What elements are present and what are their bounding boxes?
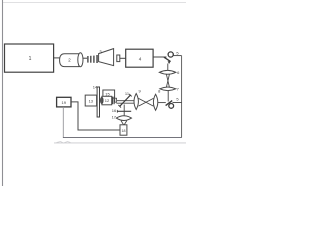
wire galvo5 to right bus <box>173 55 181 57</box>
galvo mirror 5 <box>164 52 173 64</box>
beam expander horn 3 <box>99 49 114 66</box>
wire 19 bottom bus <box>62 107 64 137</box>
wire cap to box4 <box>120 57 126 59</box>
wire box4 to galvo5 <box>153 56 166 58</box>
svg-text:4: 4 <box>139 57 142 62</box>
right bus wire <box>181 56 183 138</box>
svg-text:1: 1 <box>29 56 32 62</box>
beam crossing X vertical <box>166 74 169 87</box>
modulator box 4 <box>126 49 153 67</box>
beamsplitter 11 <box>118 94 131 108</box>
page top rule <box>3 2 186 4</box>
laser box 1 <box>5 44 54 72</box>
page bottom rule <box>54 142 186 144</box>
wire 19 to detector 18 <box>71 102 120 130</box>
lens 17 <box>116 116 131 121</box>
wire mirror to right bus <box>173 102 182 104</box>
beam mirror to lens8 <box>158 102 166 104</box>
lens 8 <box>153 94 157 110</box>
faint caption marks <box>57 142 71 144</box>
scan mirror lower <box>166 101 174 109</box>
plate 14 <box>97 87 99 117</box>
lens 6 <box>159 70 176 74</box>
filter 16 <box>117 110 131 112</box>
svg-text:18: 18 <box>122 129 126 133</box>
vertical beam below galvo5 <box>167 64 169 71</box>
svg-text:14: 14 <box>93 85 98 90</box>
beam below BS <box>123 105 125 116</box>
wire box1 to cylinder2 <box>54 57 60 59</box>
svg-text:17: 17 <box>112 114 117 119</box>
svg-text:12: 12 <box>105 98 110 103</box>
svg-text:13: 13 <box>89 99 94 104</box>
camera tube 12 <box>101 96 117 105</box>
isolator cylinder 2 <box>60 53 83 67</box>
svg-text:19: 19 <box>61 100 66 105</box>
page left rule <box>2 0 4 186</box>
lens 7 <box>160 87 176 91</box>
wire cylinder2 to coupler <box>83 57 87 59</box>
expander cap <box>117 55 120 62</box>
beam bowtie lens8 lens9 <box>139 98 154 106</box>
lens 9 <box>134 94 138 110</box>
camera body box 15 <box>103 90 115 98</box>
svg-text:16: 16 <box>112 108 117 113</box>
detector box 18 <box>120 125 127 135</box>
beam lens7 to mirror <box>167 91 169 102</box>
double beam lens9 to camera <box>116 101 134 104</box>
svg-text:15: 15 <box>105 91 110 96</box>
fiber coupler stripes <box>87 55 98 63</box>
focus cone into detector <box>121 121 127 125</box>
box 13 <box>85 95 96 106</box>
controller box 19 <box>57 97 71 107</box>
